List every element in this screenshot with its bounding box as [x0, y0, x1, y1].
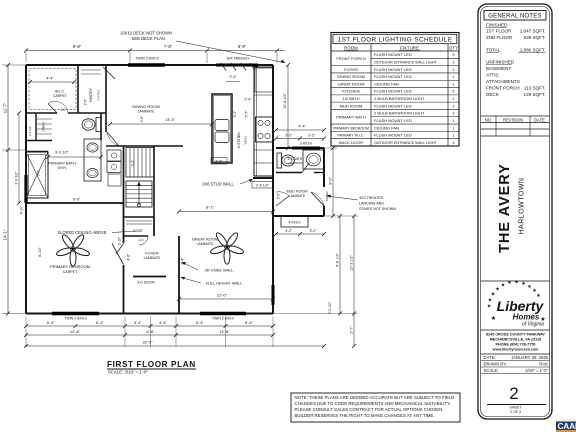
svg-text:QTY: QTY: [449, 45, 458, 50]
svg-text:FLUSH MOUNT LED: FLUSH MOUNT LED: [374, 67, 412, 72]
svg-text:8'-8": 8'-8": [238, 44, 247, 49]
dimension left chain: [7, 65, 9, 314]
stove range: [256, 117, 273, 142]
svg-text:FINISHED: FINISHED: [486, 23, 508, 28]
svg-text:CARPET: CARPET: [53, 94, 67, 98]
svg-text:2-0: 2-0: [139, 238, 144, 242]
window bedroom left wall: [24, 175, 27, 203]
dimension 9-0 vertical: [332, 148, 334, 216]
svg-text:6'-4": 6'-4": [96, 320, 104, 325]
svg-text:PRIMARY BEDROOM: PRIMARY BEDROOM: [50, 264, 90, 269]
svg-text:GREAT ROOM: GREAT ROOM: [192, 237, 218, 242]
svg-text:TWIN 2-8X6-0: TWIN 2-8X6-0: [212, 317, 234, 321]
svg-text:3'-4": 3'-4": [229, 75, 237, 79]
svg-text:FLUSH MOUNT LED: FLUSH MOUNT LED: [374, 74, 412, 79]
svg-text:3'-2": 3'-2": [285, 134, 293, 138]
dimension great room 12-0: [179, 298, 273, 300]
svg-text:FRONT PORCH: FRONT PORCH: [486, 86, 520, 91]
svg-text:PHONE (804) 730-7750: PHONE (804) 730-7750: [495, 343, 535, 347]
svg-text:3'-2": 3'-2": [131, 159, 135, 167]
wire hall top wall: [106, 145, 183, 147]
svg-text:JANUARY 29, 2025: JANUARY 29, 2025: [511, 355, 549, 360]
svg-text:SHEET: SHEET: [510, 406, 523, 410]
window twin 2-8x6-0 bottom left: [52, 312, 99, 315]
wire interior wall y113: [26, 112, 57, 114]
coat closet: [124, 216, 155, 218]
door swing bedroom: [112, 244, 124, 265]
wic shelving dashed: [29, 69, 76, 110]
svg-text:11'-7": 11'-7": [3, 102, 8, 113]
svg-text:LAMINATE: LAMINATE: [288, 161, 303, 165]
svg-text:VINYL: VINYL: [57, 166, 67, 170]
window twin 2-8x6-0 bottom right: [200, 312, 246, 315]
svg-text:SCALE: 3/16" = 1'-0": SCALE: 3/16" = 1'-0": [108, 370, 148, 375]
svg-text:PRIMARY BATH: PRIMARY BATH: [48, 162, 76, 166]
svg-text:OUTDOOR ENTRANCE WALL LIGHT: OUTDOOR ENTRANCE WALL LIGHT: [374, 61, 438, 65]
svg-text:BUILDER RESERVES THE RIGHT TO: BUILDER RESERVES THE RIGHT TO MAKE CHANG…: [295, 413, 435, 418]
toilet half bath: [277, 153, 282, 168]
dimension 12-3 vertical: [353, 216, 355, 346]
kitchen island: [212, 94, 232, 163]
dimension top chain: [26, 50, 285, 52]
svg-text:of Virginia: of Virginia: [522, 322, 544, 328]
wire front door header: [133, 276, 166, 278]
svg-text:SCALE:: SCALE:: [484, 368, 499, 373]
svg-text:4'-6": 4'-6": [127, 253, 131, 261]
svg-text:OUTDOOR ENTRANCE WALL LIGHT: OUTDOOR ENTRANCE WALL LIGHT: [374, 141, 438, 145]
svg-text:12'-0": 12'-0": [217, 293, 228, 298]
svg-text:2-0: 2-0: [61, 108, 66, 112]
svg-text:CEILING FAN: CEILING FAN: [374, 81, 399, 86]
svg-text:MECHANICSVILLE, VA 23116: MECHANICSVILLE, VA 23116: [490, 338, 541, 342]
linen shelving: [36, 118, 52, 120]
svg-text:3'-6 1/2": 3'-6 1/2": [15, 171, 19, 185]
svg-text:GENERAL NOTES: GENERAL NOTES: [488, 14, 541, 20]
wire interior wall dining/wic: [105, 65, 107, 132]
lighting schedule table U1: [331, 33, 459, 147]
svg-text:FULL HEIGHT WALL: FULL HEIGHT WALL: [206, 281, 243, 286]
svg-text:KITCHEN: KITCHEN: [237, 132, 241, 148]
svg-text:4'-4": 4'-4": [46, 77, 54, 81]
svg-text:2 OF 3: 2 OF 3: [510, 410, 521, 414]
door b/4 french top: [216, 64, 258, 67]
landing outside back: [281, 216, 308, 227]
general notes header: [484, 11, 546, 21]
stairs upper run: [126, 148, 154, 178]
svg-text:3'-4": 3'-4": [159, 320, 167, 325]
svg-text:THE AVERY: THE AVERY: [497, 163, 513, 253]
ceiling fan great room: [210, 231, 245, 264]
svg-text:FLUSH MOUNT LED: FLUSH MOUNT LED: [374, 118, 412, 123]
svg-text:4-0 POL: 4-0 POL: [97, 89, 101, 101]
dimension 2-6 boxed: [252, 182, 273, 189]
washer dryer stack: [107, 150, 121, 161]
door swing wic: [48, 104, 57, 114]
svg-text:ATTIC: ATTIC: [486, 73, 500, 78]
svg-text:2 BULB BATHROOM LIGHT: 2 BULB BATHROOM LIGHT: [374, 111, 425, 116]
svg-text:TWIN 2-8X5-0: TWIN 2-8X5-0: [135, 57, 159, 61]
svg-text:12'-3 1/2": 12'-3 1/2": [350, 254, 354, 271]
wire bath/bedroom wall: [26, 202, 123, 204]
svg-text:8245 CROSS COUNTY PARKWAY: 8245 CROSS COUNTY PARKWAY: [486, 333, 546, 337]
svg-text:BACK DOOR: BACK DOOR: [339, 140, 363, 145]
svg-text:2ND FLOOR: 2ND FLOOR: [486, 35, 513, 40]
svg-text:www.libertyhomesva.com: www.libertyhomesva.com: [492, 348, 540, 352]
vanity primary bath double sinks: [84, 139, 101, 181]
svg-text:4'-4": 4'-4": [298, 124, 306, 129]
svg-text:12'-8": 12'-8": [219, 329, 230, 334]
dimension bottom row2: [26, 334, 273, 336]
svg-text:CHANGES DUE TO CODE REQUIREMEN: CHANGES DUE TO CODE REQUIREMENTS AND MEC…: [295, 401, 451, 406]
wire linen closet walls: [35, 113, 37, 140]
svg-text:SLOPED CEILING ABOVE: SLOPED CEILING ABOVE: [57, 230, 106, 235]
svg-text:REVISION: REVISION: [503, 117, 523, 122]
wire interior wall closet divider: [77, 65, 79, 113]
svg-text:RAK: RAK: [539, 362, 548, 367]
svg-text:1ST FLOOR: 1ST FLOOR: [486, 29, 512, 34]
wire kitchen stub wall: [253, 177, 273, 179]
dimension 2-0 boxed: [211, 158, 227, 165]
svg-text:DOOR: DOOR: [325, 191, 329, 201]
shower with x hatch: [26, 152, 48, 198]
wire stairs right wall: [153, 146, 155, 236]
svg-text:839 SQFT.: 839 SQFT.: [524, 35, 546, 40]
svg-text:★: ★: [521, 281, 526, 287]
svg-text:FOYER: FOYER: [344, 67, 358, 72]
note box: [291, 393, 460, 422]
svg-text:B/4 FRENCH: B/4 FRENCH: [227, 57, 249, 61]
svg-text:★: ★: [491, 315, 497, 322]
title block frame: [478, 4, 552, 419]
svg-text:CAAR: CAAR: [558, 421, 576, 431]
kitchen counter: [254, 67, 273, 176]
dimension mud bottom: [276, 233, 324, 235]
svg-text:FOYER: FOYER: [145, 251, 159, 256]
svg-text:TOTAL: TOTAL: [486, 48, 501, 53]
svg-text:FIRST FLOOR PLAN: FIRST FLOOR PLAN: [107, 360, 196, 369]
svg-text:6'-4": 6'-4": [196, 320, 204, 325]
svg-text:DINING ROOM: DINING ROOM: [132, 104, 160, 109]
svg-text:7'-8": 7'-8": [164, 44, 173, 49]
svg-text:NO.: NO.: [485, 117, 492, 122]
svg-text:Homes: Homes: [513, 313, 540, 322]
svg-text:FRONT PORCH: FRONT PORCH: [336, 56, 365, 61]
svg-text:KITCHEN: KITCHEN: [342, 89, 360, 94]
svg-text:UNFINISHED: UNFINISHED: [486, 60, 515, 65]
svg-text:8'-1": 8'-1": [206, 205, 215, 210]
svg-text:3'-2": 3'-2": [285, 229, 293, 233]
svg-text:3'-4": 3'-4": [181, 257, 185, 265]
cabinet below washer: [108, 174, 121, 186]
svg-text:4-0X3-0: 4-0X3-0: [288, 221, 300, 225]
svg-text:3'-4": 3'-4": [134, 320, 142, 325]
dimension 9-8 vertical: [339, 216, 341, 314]
dimension bottom row3: [26, 345, 324, 347]
svg-text:PRIMARY W.I.C.: PRIMARY W.I.C.: [337, 134, 364, 138]
svg-text:2: 2: [509, 384, 518, 403]
svg-text:★: ★: [495, 287, 500, 293]
svg-text:2'-10": 2'-10": [118, 236, 122, 245]
svg-text:4'-0": 4'-0": [140, 115, 144, 122]
wire bottom exterior wall: [26, 313, 273, 315]
svg-text:2'-6": 2'-6": [84, 99, 88, 105]
svg-text:FLUSH MOUNT LED: FLUSH MOUNT LED: [374, 89, 412, 94]
svg-text:2'-0 1/2": 2'-0 1/2": [328, 301, 332, 314]
sink half bath: [303, 150, 324, 169]
ceiling fan primary bedroom: [56, 233, 91, 266]
door swing half bath: [302, 163, 310, 173]
svg-text:2'-6 1/2": 2'-6 1/2": [256, 184, 270, 188]
svg-text:6'-4": 6'-4": [245, 320, 253, 325]
svg-text:VINYL: VINYL: [244, 135, 248, 144]
svg-text:3-4 1/2": 3-4 1/2": [28, 126, 32, 136]
CAAR watermark logo: [556, 420, 576, 422]
wire bedroom right wall: [123, 146, 125, 243]
svg-text:FLUSH MOUNT LED: FLUSH MOUNT LED: [374, 52, 412, 57]
svg-text:3'-0": 3'-0": [277, 192, 281, 199]
svg-text:128 SQFT.: 128 SQFT.: [524, 92, 546, 97]
svg-text:CEILING FAN: CEILING FAN: [374, 125, 399, 130]
svg-text:10'-8 1/2": 10'-8 1/2": [283, 92, 287, 109]
svg-text:★: ★: [507, 280, 512, 286]
svg-text:2'-0": 2'-0": [215, 160, 223, 164]
svg-text:LINEN: LINEN: [42, 122, 46, 132]
svg-text:1,047 SQFT.: 1,047 SQFT.: [520, 29, 546, 34]
svg-text:3/16" = 1'-0": 3/16" = 1'-0": [525, 368, 548, 373]
wire half bath divider: [276, 172, 302, 174]
svg-text:PRIMARY BATH: PRIMARY BATH: [336, 114, 366, 119]
svg-text:14'-1": 14'-1": [3, 229, 8, 240]
dimension great room 8-1: [179, 211, 273, 213]
dimension 10-8 vertical: [287, 65, 289, 148]
svg-text:DRAWN BY:: DRAWN BY:: [484, 362, 507, 367]
svg-text:DECK: DECK: [486, 92, 500, 97]
svg-text:FIXTURE: FIXTURE: [400, 45, 419, 50]
dimension bottom row1: [26, 325, 273, 327]
window great room right wall: [272, 285, 275, 305]
svg-text:STAIRS NOT SHOWN: STAIRS NOT SHOWN: [359, 207, 396, 211]
refrigerator: [255, 68, 273, 92]
wire shower top wall: [26, 151, 48, 153]
wire left exterior wall: [25, 65, 27, 314]
svg-text:3'-2": 3'-2": [310, 229, 318, 233]
svg-text:TWIN 2-8X6-0: TWIN 2-8X6-0: [64, 317, 86, 321]
svg-text:HARLOWTOWN: HARLOWTOWN: [519, 178, 526, 235]
window twin 2-8x5-0 top: [128, 63, 165, 66]
dimension wic 4-4: [30, 81, 74, 83]
svg-text:LAMINATE: LAMINATE: [197, 242, 214, 246]
svg-text:3'-2": 3'-2": [308, 134, 316, 138]
svg-text:14'-3": 14'-3": [165, 117, 176, 122]
svg-text:36" KNEE WALL: 36" KNEE WALL: [205, 268, 235, 273]
svg-text:ROOM: ROOM: [344, 45, 358, 50]
svg-text:2 BULB BATHROOM LIGHT: 2 BULB BATHROOM LIGHT: [374, 96, 425, 101]
svg-text:3'-0": 3'-0": [37, 169, 41, 176]
svg-text:★: ★: [488, 298, 493, 304]
svg-text:6'-4": 6'-4": [47, 320, 55, 325]
svg-text:3'-4": 3'-4": [244, 98, 252, 102]
wire foyer/great room wall: [178, 236, 180, 314]
svg-text:9'-0": 9'-0": [328, 177, 333, 185]
svg-text:LAMINATE: LAMINATE: [144, 256, 161, 260]
svg-text:ATTACHMENTS: ATTACHMENTS: [486, 79, 520, 84]
svg-text:9'-3 1/2": 9'-3 1/2": [55, 151, 69, 155]
svg-text:8'-10": 8'-10": [38, 247, 42, 257]
door swing dining to hall: [107, 132, 119, 146]
svg-text:3X3 TREATED: 3X3 TREATED: [359, 196, 384, 200]
svg-text:1/2 BATH: 1/2 BATH: [342, 96, 359, 101]
toilet primary bath: [96, 118, 101, 132]
svg-text:LAMINATE: LAMINATE: [138, 110, 155, 114]
stairs lower run with up arrow: [126, 181, 152, 207]
revision table: [481, 115, 550, 117]
svg-text:DATE:: DATE:: [484, 355, 496, 360]
svg-text:★: ★: [501, 283, 506, 289]
svg-text:CARPET: CARPET: [63, 270, 78, 274]
wire top exterior wall: [26, 64, 273, 66]
svg-text:PRIMARY BEDROOM: PRIMARY BEDROOM: [333, 126, 369, 130]
dimension dining 14-3: [110, 123, 212, 125]
wire toilet room wall: [100, 113, 102, 140]
svg-text:4'-10": 4'-10": [20, 205, 24, 214]
svg-text:2X6 STUD WALL: 2X6 STUD WALL: [202, 182, 234, 187]
svg-text:32'-0": 32'-0": [142, 340, 153, 345]
svg-text:2'-7": 2'-7": [350, 326, 354, 334]
svg-text:MUD ROOM: MUD ROOM: [340, 103, 363, 108]
svg-text:NOTE: THESE PLANS ARE DEEMED A: NOTE: THESE PLANS ARE DEEMED ACCURATE BU…: [295, 395, 455, 400]
svg-text:1,886 SQFT.: 1,886 SQFT.: [520, 48, 546, 53]
svg-text:DATE: DATE: [534, 117, 545, 122]
svg-text:9'-8": 9'-8": [73, 44, 82, 49]
door swing mud to great: [276, 196, 289, 206]
svg-text:12'-8": 12'-8": [70, 329, 81, 334]
wire mud room bump walls: [273, 215, 324, 217]
svg-text:113 SQFT.: 113 SQFT.: [524, 86, 546, 91]
svg-text:FLUSH MOUNT LED: FLUSH MOUNT LED: [374, 133, 412, 138]
wire right exterior wall: [272, 65, 274, 314]
pantry shelving: [81, 69, 101, 71]
svg-text:BASEMENT: BASEMENT: [486, 66, 511, 71]
svg-text:PANTRY: PANTRY: [89, 87, 93, 102]
svg-text:LAMINATE: LAMINATE: [289, 194, 306, 198]
svg-text:3-0 DOOR: 3-0 DOOR: [137, 281, 155, 285]
svg-text:1ST FLOOR LIGHTING SCHEDULE: 1ST FLOOR LIGHTING SCHEDULE: [338, 37, 453, 44]
window 2-8x3-0 mud bump: [292, 147, 320, 150]
door swing pantry: [103, 67, 115, 79]
svg-text:9'-6": 9'-6": [73, 198, 81, 202]
svg-text:W.I.C.: W.I.C.: [55, 90, 65, 94]
svg-text:★: ★: [514, 280, 519, 286]
svg-text:9'-8 1/2": 9'-8 1/2": [336, 252, 340, 267]
date drawn scale rows: [481, 353, 550, 355]
svg-text:MUD ROOM: MUD ROOM: [287, 190, 308, 194]
svg-text:10X12 DECK NOT SHOWN: 10X12 DECK NOT SHOWN: [120, 31, 172, 36]
svg-text:PLEASE CONSULT SALES CONTRACT: PLEASE CONSULT SALES CONTRACT FOR ACTUAL…: [295, 407, 444, 412]
svg-text:5'-7": 5'-7": [245, 110, 249, 118]
svg-text:6'-8": 6'-8": [147, 329, 156, 334]
svg-text:FLUSH MOUNT LED: FLUSH MOUNT LED: [374, 103, 412, 108]
svg-text:2-8X3-0: 2-8X3-0: [300, 142, 313, 146]
svg-text:- SEE DECK PLAN: - SEE DECK PLAN: [129, 36, 165, 41]
svg-text:★: ★: [487, 304, 492, 310]
svg-text:5'-2": 5'-2": [233, 110, 237, 118]
svg-text:DINING ROOM: DINING ROOM: [337, 74, 365, 79]
door swing back door: [311, 192, 324, 206]
svg-text:LANDING AND: LANDING AND: [359, 202, 384, 206]
svg-text:GREAT ROOM: GREAT ROOM: [338, 81, 365, 86]
coat door swing: [139, 236, 148, 245]
